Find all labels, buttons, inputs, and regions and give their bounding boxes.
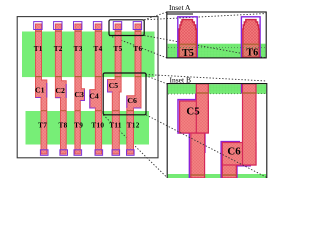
- svg-text:T6: T6: [133, 45, 142, 53]
- contact C6 metal upper strip: [243, 84, 257, 165]
- svg-text:T2: T2: [54, 45, 63, 53]
- svg-text:C6: C6: [227, 145, 241, 157]
- svg-text:T1: T1: [34, 45, 43, 53]
- callout line B to inset top-right: [146, 75, 267, 82]
- metal2 contact boxes on strip tops: [34, 22, 142, 30]
- inset A background: [167, 12, 266, 58]
- via purple box T6: [241, 17, 260, 57]
- svg-text:T5: T5: [114, 45, 123, 53]
- column 3: transistor T3 / contact C3 / transistor T9: [75, 24, 85, 154]
- svg-text:C3: C3: [74, 90, 84, 99]
- contact C5 metal upper strip: [196, 84, 208, 133]
- svg-text:T8: T8: [59, 122, 68, 130]
- bottom diffusion green band: [26, 111, 150, 145]
- contact C6 metal lower strip: [222, 160, 236, 178]
- contact C6 metal pad: [222, 143, 256, 166]
- callout box B: [103, 73, 146, 115]
- contact C5 metal2 outline: [178, 94, 205, 179]
- main layout cell boundary: [17, 17, 158, 158]
- callout line A to inset bottom-left: [109, 36, 167, 58]
- callout line B to inset top-left: [146, 76, 168, 85]
- well edge dashed line in inset A green: [168, 47, 265, 49]
- callout line A to inset bottom-right: [144, 36, 266, 58]
- callout line B to inset bottom-right over shapes: [146, 115, 267, 178]
- labels C1-C6: [35, 81, 137, 105]
- poly dome T6: [243, 20, 259, 58]
- column 5: transistor T5 / contact C5 / transistor T11: [108, 24, 122, 154]
- callout line B to inset bottom-left: [103, 115, 167, 178]
- oxide edge marks inset A: [179, 43, 259, 45]
- svg-text:C2: C2: [55, 86, 65, 95]
- svg-text:C1: C1: [35, 86, 45, 95]
- svg-text:T7: T7: [38, 122, 47, 130]
- column 2: transistor T2 / contact C2 / transistor T8: [55, 24, 66, 154]
- svg-text:Inset B: Inset B: [170, 76, 191, 85]
- via purple box T5: [178, 17, 197, 57]
- svg-text:T3: T3: [74, 45, 83, 53]
- svg-text:T10: T10: [91, 122, 104, 130]
- callout line A to inset top-left: [144, 12, 167, 20]
- svg-text:C4: C4: [89, 92, 99, 101]
- callout box A: [109, 20, 144, 36]
- metal2 contact boxes on strip bottoms: [40, 150, 134, 156]
- callout line A to inset top-right: [144, 14, 266, 20]
- top diffusion green band: [22, 32, 155, 78]
- dotted layer line in inset B green: [168, 93, 266, 95]
- labels T7-T12: [38, 122, 140, 130]
- svg-text:T6: T6: [246, 47, 258, 58]
- contact C5 metal lower strip: [191, 133, 205, 178]
- svg-text:Inset A: Inset A: [169, 3, 191, 12]
- contact C5 metal pad: [180, 101, 209, 133]
- svg-text:C5: C5: [186, 105, 199, 117]
- svg-text:C6: C6: [127, 96, 137, 105]
- inset B background: [167, 83, 267, 178]
- dome tint in green zone: [179, 44, 196, 57]
- column 1: transistor T1 / contact C1 / transistor T7: [36, 24, 47, 154]
- poly dome T5: [179, 20, 196, 58]
- svg-text:T12: T12: [127, 122, 140, 130]
- oxide edge marks inset B C5: [196, 92, 208, 94]
- labels T1-T6: [34, 45, 143, 53]
- contact C6 metal2 outline: [221, 84, 251, 178]
- inset B frame: [167, 84, 267, 178]
- column 4: transistor T4 / contact C4 / transistor T10: [90, 24, 102, 154]
- column 6: transistor T6 / contact C6 / transistor T12: [127, 24, 141, 154]
- inset A frame: [167, 12, 266, 58]
- svg-text:T11: T11: [109, 122, 122, 130]
- oxide edge marks on strips: [36, 76, 142, 78]
- oxide edge marks inset B C6: [243, 92, 257, 94]
- svg-text:C5: C5: [109, 81, 119, 90]
- svg-text:T4: T4: [94, 45, 103, 53]
- svg-text:T9: T9: [74, 122, 83, 130]
